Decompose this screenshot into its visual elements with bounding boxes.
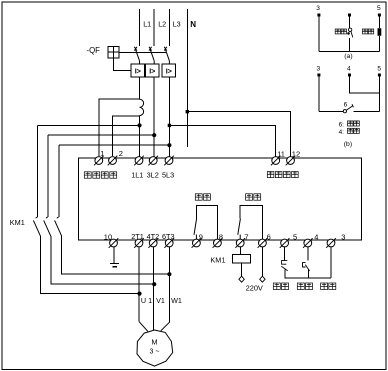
terminal 9 bbox=[192, 238, 202, 248]
wire N feeder bbox=[186, 9, 188, 147]
wire KM1 pole 2 lower to motor lead bbox=[51, 236, 154, 284]
breaker linkage line bbox=[119, 52, 166, 54]
switch 6 (b) bbox=[343, 110, 346, 113]
svg-text:KM1: KM1 bbox=[10, 218, 25, 227]
pushbutton stop (NC) bbox=[281, 261, 287, 271]
wire terminal 5 to stop button bbox=[284, 247, 286, 261]
fault contact stub bbox=[195, 235, 197, 240]
svg-text:L3: L3 bbox=[173, 19, 181, 28]
220V supply terminal left bbox=[239, 276, 244, 282]
bypass contact blade bbox=[238, 219, 241, 235]
label gonggong (common) bbox=[321, 283, 336, 290]
soft starter unit box bbox=[79, 158, 362, 240]
wire L1 tap to KM1 pole 1 bbox=[38, 124, 140, 126]
bypass contact stub bbox=[239, 235, 241, 240]
wire coil to 220V bbox=[241, 263, 243, 276]
svg-text:I>: I> bbox=[135, 67, 141, 76]
wire common bar bbox=[285, 277, 331, 279]
svg-text:4: 4 bbox=[347, 66, 351, 73]
svg-text:3: 3 bbox=[316, 5, 320, 12]
contactor KM1 pole 3 contact bbox=[57, 217, 59, 218]
terminal 4T2 bbox=[148, 238, 158, 248]
wire terminal 4 to start button bbox=[307, 247, 309, 261]
wire start button to common bar bbox=[307, 270, 309, 279]
wire KM1 pole 2 upper bbox=[47, 135, 49, 217]
terminal 10 bbox=[109, 238, 119, 248]
svg-text:V1: V1 bbox=[156, 296, 165, 305]
breaker QF pole 2 contact bbox=[149, 47, 154, 64]
svg-text:5L3: 5L3 bbox=[162, 170, 174, 179]
wire terminal 10 to ground bbox=[113, 247, 115, 263]
terminal 3L2 bbox=[148, 156, 158, 166]
svg-text:1L1: 1L1 bbox=[131, 170, 143, 179]
svg-text:I>: I> bbox=[149, 67, 155, 76]
wire L1 feeder bbox=[139, 9, 141, 46]
svg-text:9: 9 bbox=[199, 232, 203, 241]
wire 6T3 to motor W1 bbox=[168, 247, 170, 322]
terminal 6T3 bbox=[164, 238, 174, 248]
svg-text:W1: W1 bbox=[171, 296, 182, 305]
wire terminal 3 common bbox=[330, 247, 332, 278]
wire bottom bar right (b) bbox=[354, 110, 380, 112]
terminal 5L3 bbox=[164, 156, 174, 166]
wire terminal 1 to CT top bbox=[99, 99, 140, 156]
svg-text:3L2: 3L2 bbox=[147, 170, 159, 179]
svg-text:3: 3 bbox=[317, 66, 321, 73]
node V1 junction bbox=[152, 282, 156, 286]
wire 4 upper (a) bbox=[349, 15, 351, 28]
svg-text:L2: L2 bbox=[158, 19, 166, 28]
breaker QF pole 1 contact bbox=[134, 47, 139, 64]
node U1 junction bbox=[137, 292, 141, 296]
terminal 1L1 bbox=[134, 156, 144, 166]
node W1 junction bbox=[167, 272, 171, 276]
wire 5 lower (a) bbox=[378, 36, 380, 52]
svg-text:I>: I> bbox=[166, 67, 172, 76]
wire 3 (b) bbox=[318, 75, 320, 111]
current transformer CT on L1 bbox=[140, 99, 144, 115]
wire 3 (a) bbox=[318, 15, 320, 51]
pushbutton start (NO) bbox=[303, 263, 310, 271]
wire N tap to terminal 12 bbox=[187, 112, 290, 157]
svg-text:11: 11 bbox=[277, 150, 285, 159]
wire L1 below breaker bbox=[139, 77, 141, 99]
motor M 3~ bbox=[137, 330, 173, 366]
label tingzhi (stop) bbox=[362, 29, 373, 34]
svg-text:3: 3 bbox=[341, 232, 345, 241]
node N control tap bbox=[186, 110, 189, 113]
terminal 4 (b) bbox=[348, 74, 351, 77]
wire L2 to terminal 3L2 bbox=[153, 77, 155, 157]
svg-text:(a): (a) bbox=[344, 53, 352, 60]
svg-text:5: 5 bbox=[377, 66, 381, 73]
wire bottom bar (a) bbox=[319, 50, 380, 52]
220V supply terminal right bbox=[260, 276, 265, 282]
wire L2 tap to KM1 pole 2 bbox=[48, 134, 154, 136]
svg-text:8: 8 bbox=[219, 232, 223, 241]
label guzhang (fault) bbox=[195, 194, 210, 200]
wire terminal 7 to coil bbox=[240, 247, 242, 254]
terminal 11 bbox=[271, 156, 281, 166]
wire terminal 6 to 220V bbox=[261, 247, 263, 276]
svg-text:2: 2 bbox=[119, 149, 123, 158]
wire U1 into motor bbox=[139, 322, 148, 332]
breaker QF actuator box bbox=[108, 46, 119, 58]
svg-text:(b): (b) bbox=[344, 141, 352, 148]
terminal 5 (a) bbox=[378, 14, 381, 17]
svg-text:2T1: 2T1 bbox=[131, 232, 144, 241]
fault contact loop to terminal 8 bbox=[196, 205, 217, 239]
svg-text:5: 5 bbox=[293, 232, 297, 241]
terminal 2 bbox=[108, 156, 118, 166]
contactor KM1 coil bbox=[233, 254, 251, 262]
wire KM1 pole 3 lower to motor lead bbox=[62, 236, 170, 274]
terminal 3 (b) bbox=[317, 74, 320, 77]
svg-text:6:: 6: bbox=[339, 121, 345, 128]
svg-text:6: 6 bbox=[267, 232, 271, 241]
wire W1 into motor bbox=[161, 322, 170, 331]
svg-text:6T3: 6T3 bbox=[162, 232, 175, 241]
svg-text:6: 6 bbox=[344, 102, 348, 109]
wire KM1 pole 3 upper bbox=[58, 145, 60, 217]
breaker trip unit I> box 1 bbox=[131, 64, 145, 77]
wire KM1 pole 1 lower to motor lead bbox=[41, 236, 140, 293]
svg-text:U 1: U 1 bbox=[141, 296, 152, 305]
svg-text:M: M bbox=[151, 338, 157, 347]
label tingche (stop) bbox=[273, 283, 288, 290]
wire L3 feeder bbox=[168, 9, 170, 46]
terminal 7 bbox=[235, 238, 245, 248]
breaker trip unit I> box 2 bbox=[146, 64, 160, 77]
node L3 control tap bbox=[168, 124, 171, 127]
terminal 4 bbox=[303, 238, 313, 248]
wire bottom bar left (b) bbox=[319, 110, 343, 112]
pushbutton run NO (a) bbox=[348, 28, 351, 31]
svg-text:5: 5 bbox=[377, 5, 381, 12]
label dianliu quyang (current sampling) bbox=[84, 172, 116, 178]
wire L3 tap to KM1 pole 3 bbox=[59, 144, 170, 146]
terminal 8 bbox=[213, 238, 223, 248]
node L3 bypass tap bbox=[167, 143, 171, 147]
svg-text:10: 10 bbox=[104, 232, 112, 241]
wire L3 tap to terminal 11 bbox=[169, 125, 275, 156]
terminal 3 bbox=[326, 238, 336, 248]
breaker linkage to trip unit bbox=[114, 58, 131, 71]
terminal 6 bbox=[258, 238, 268, 248]
wire stop button to common bar bbox=[284, 270, 286, 279]
terminal 3 (a) bbox=[317, 14, 320, 17]
label kongzhi dianyuan (control power) bbox=[267, 172, 298, 178]
wire terminal 2 to CT bottom bbox=[113, 116, 140, 156]
breaker trip unit I> box 3 bbox=[162, 64, 176, 77]
svg-text:3 ~: 3 ~ bbox=[150, 348, 160, 355]
node L1 bypass tap bbox=[137, 123, 141, 127]
svg-text:1: 1 bbox=[100, 149, 104, 158]
svg-text:4: 4 bbox=[314, 232, 318, 241]
svg-text:220V: 220V bbox=[246, 283, 263, 292]
wire 4 lower (a) bbox=[349, 38, 351, 52]
terminal 2T1 bbox=[134, 238, 144, 248]
svg-text:7: 7 bbox=[244, 232, 248, 241]
terminal 5 (b) bbox=[378, 74, 381, 77]
breaker QF pole 3 contact bbox=[164, 47, 169, 64]
bypass contact loop to terminal 6 bbox=[240, 205, 262, 239]
wire KM1 pole 1 upper bbox=[37, 125, 39, 217]
pushbutton stop NC (a) bbox=[378, 28, 382, 36]
svg-text:KM1: KM1 bbox=[210, 255, 225, 264]
contactor KM1 pole 2 contact bbox=[46, 217, 48, 218]
wire 5 (b) bbox=[378, 75, 380, 111]
svg-text:N: N bbox=[190, 20, 196, 29]
terminal 1 bbox=[94, 156, 104, 166]
wire L1 to terminal 1L1 bbox=[139, 116, 141, 157]
terminal 4 (a) bbox=[348, 14, 351, 17]
ground symbol bbox=[110, 263, 119, 265]
label qidong (start) bbox=[297, 283, 312, 290]
wire 4 to 5 (b) bbox=[350, 75, 380, 93]
svg-text:12: 12 bbox=[292, 150, 300, 159]
wire L3 to terminal 5L3 bbox=[168, 77, 170, 157]
node L2 bypass tap bbox=[152, 133, 156, 137]
svg-text:4T2: 4T2 bbox=[147, 232, 160, 241]
svg-text:-QF: -QF bbox=[87, 46, 101, 55]
wire L2 feeder bbox=[153, 9, 155, 46]
label yunxing (run) bbox=[335, 29, 346, 34]
wire 2T1 to motor U1 bbox=[138, 247, 140, 322]
wire 5 upper (a) bbox=[378, 15, 380, 28]
fault contact blade bbox=[194, 219, 197, 235]
svg-text:L1: L1 bbox=[143, 19, 151, 28]
terminal 12 bbox=[286, 156, 296, 166]
label panglu (bypass) bbox=[246, 194, 261, 200]
wire 4T2 to motor V1 bbox=[153, 247, 155, 331]
terminal 5 bbox=[280, 238, 290, 248]
contactor KM1 pole 1 contact bbox=[36, 217, 38, 218]
svg-text:4:: 4: bbox=[339, 129, 345, 136]
